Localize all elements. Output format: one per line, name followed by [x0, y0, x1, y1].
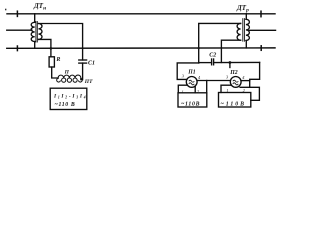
transformer DTn core	[35, 22, 37, 43]
P1 box ~110V	[178, 93, 207, 107]
tilde in P2	[233, 80, 239, 85]
capacitor C2 plates	[211, 59, 213, 65]
transformer DTr primary winding	[246, 19, 250, 40]
svg-text:4: 4	[198, 75, 201, 80]
transformer DTn primary top lead	[34, 14, 36, 22]
wire node C: P1 pin4 to P2 pin3	[197, 80, 230, 82]
junction dot node B	[229, 61, 232, 64]
synchro P2 circle	[230, 77, 241, 88]
capacitor C2 leads	[199, 62, 212, 64]
bottom bus line	[7, 47, 275, 49]
svg-text:R: R	[55, 57, 60, 63]
svg-text:1: 1	[182, 90, 184, 95]
svg-text:3: 3	[226, 75, 229, 80]
tick on top bus left	[16, 11, 18, 16]
wire P2 pin2 to zigzag	[240, 86, 250, 88]
node A vertical and DTr secondary top wire	[199, 23, 241, 63]
tick on bottom bus left	[16, 46, 18, 51]
tick on bottom bus right	[260, 46, 262, 51]
middle-left bus line	[7, 29, 32, 31]
svg-text:П1: П1	[187, 70, 196, 76]
svg-text:ПТ: ПТ	[84, 79, 93, 85]
wire: C1 bottom to coil right end	[81, 63, 83, 80]
capacitor C1	[79, 59, 87, 61]
wire: DTn secondary top to C1	[39, 24, 83, 60]
wire: R bottom to coil	[52, 67, 58, 78]
wire P2 pin4 to zigzag	[241, 80, 250, 82]
top bus line	[7, 13, 275, 15]
svg-text:~110 В: ~110 В	[55, 102, 75, 108]
transformer DTn primary bottom lead	[34, 42, 36, 49]
P2 box ~110V	[219, 93, 251, 108]
transformer DTr primary bottom lead	[245, 41, 247, 48]
svg-text:1: 1	[226, 88, 228, 93]
transformer DTr primary top lead	[245, 14, 247, 19]
middle-right bus line	[249, 29, 275, 31]
svg-text:ДТр: ДТр	[236, 4, 249, 14]
svg-text:~110В: ~110В	[181, 102, 200, 108]
resistor R	[49, 57, 54, 67]
wire P1 pin2 to box	[194, 86, 196, 92]
wire: DTr secondary bottom to node B	[221, 40, 240, 62]
svg-text:3: 3	[182, 73, 185, 78]
svg-text:4: 4	[242, 75, 245, 80]
synchro P1 circle	[186, 77, 197, 88]
tick on top bus right	[260, 11, 262, 17]
tilde in P1	[189, 80, 195, 85]
wire node C drop to P1 box	[206, 81, 208, 93]
transformer DTr core	[242, 19, 244, 42]
svg-text:С2: С2	[209, 53, 216, 59]
svg-text:I1I2-I3I4: I1I2-I3I4	[53, 93, 86, 99]
junction dot node A on bus	[198, 47, 200, 49]
wire P1 pin1 to box	[178, 85, 187, 93]
wire: DTn secondary bottom down to bus	[39, 39, 51, 56]
wire node A left to P1 pin3	[177, 63, 199, 80]
stub under P2 label	[229, 63, 231, 68]
svg-text:П2: П2	[229, 70, 238, 76]
dust speck	[5, 9, 6, 11]
svg-text:С1: С1	[88, 61, 95, 67]
box I1I2-I3I4 ~110V	[50, 88, 87, 109]
transformer DTn primary winding	[31, 22, 35, 41]
svg-text:ДТн: ДТн	[33, 2, 46, 12]
winding PT (coil on box)	[58, 75, 81, 80]
zigzag wire right of P2	[250, 62, 260, 100]
wire P2 pin1 to box	[221, 85, 231, 92]
junction dot bus/R	[50, 47, 53, 50]
transformer DTn secondary winding	[39, 24, 43, 40]
transformer DTr secondary winding	[237, 23, 241, 40]
svg-text:П: П	[64, 69, 70, 75]
